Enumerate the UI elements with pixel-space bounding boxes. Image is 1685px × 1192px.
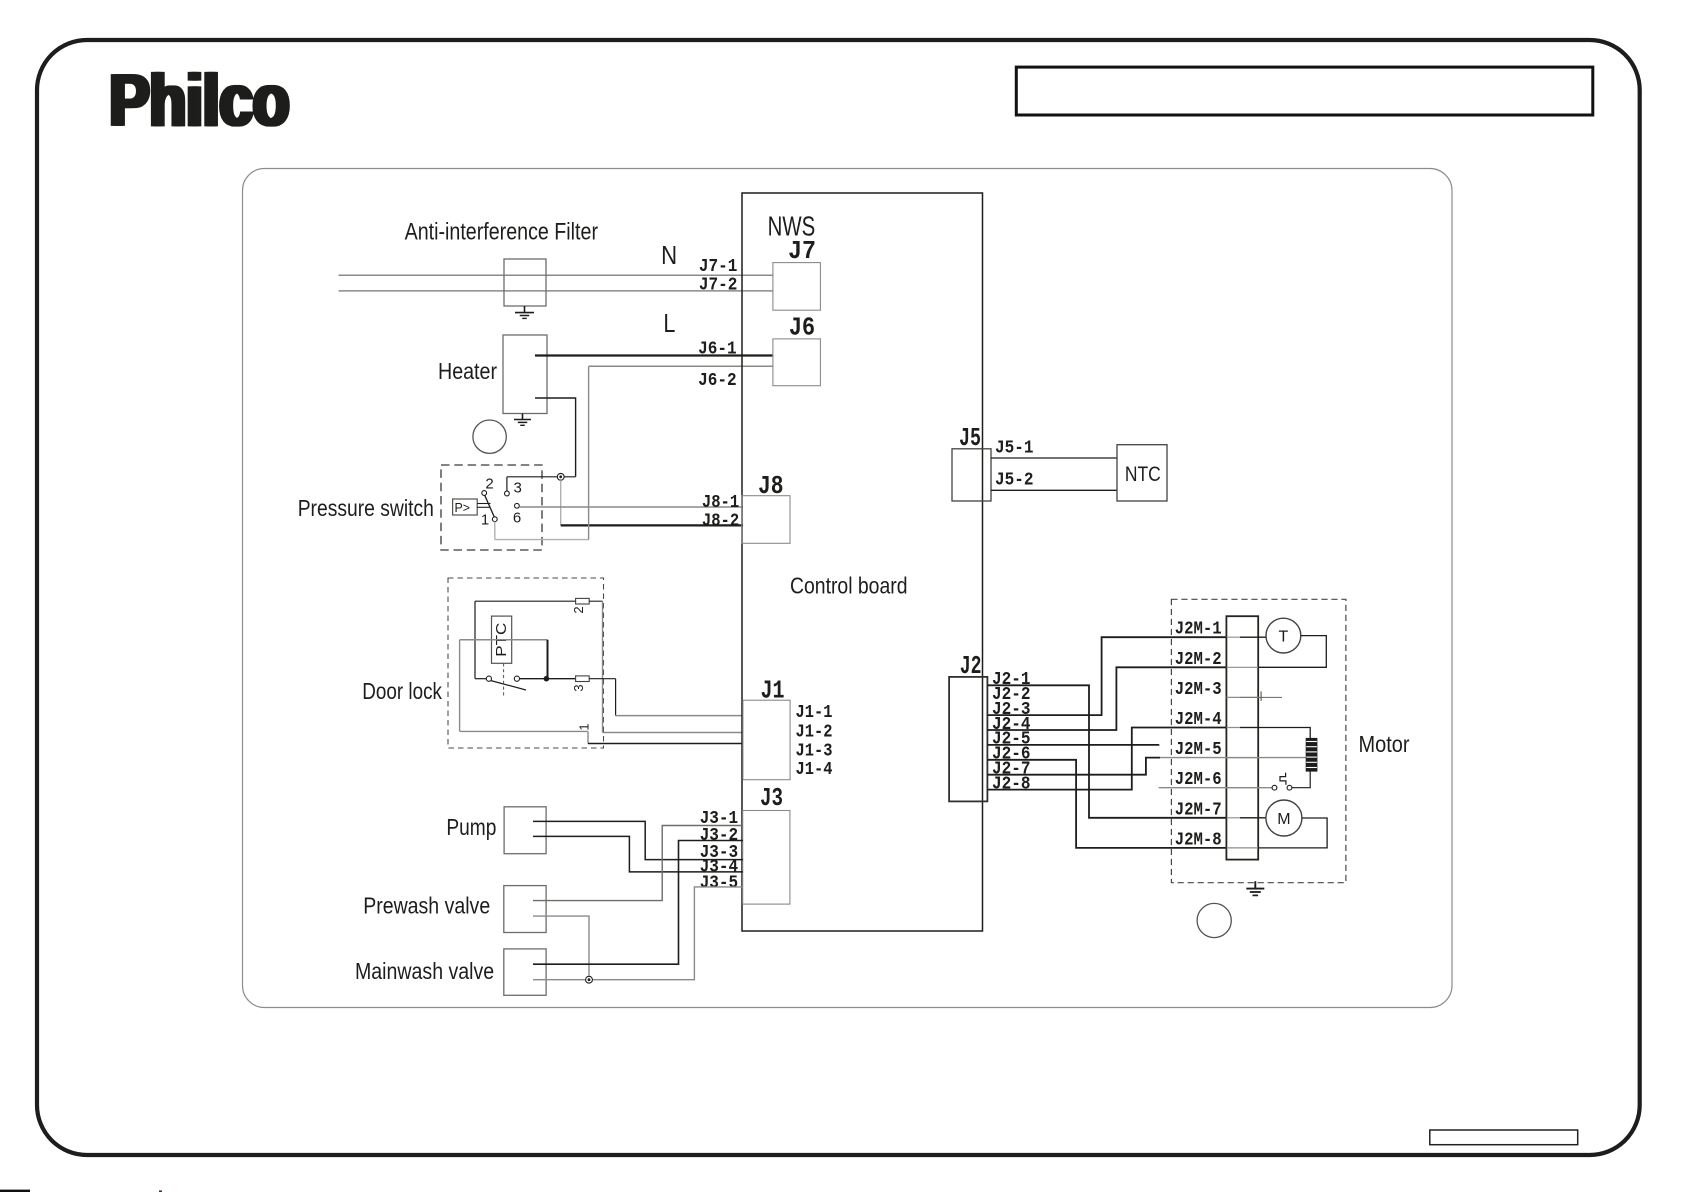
svg-text:2: 2 [571,606,586,613]
svg-text:Pressure switch: Pressure switch [298,495,434,521]
connector J5 box [952,449,991,501]
wire J2-3 to J2M-1 [987,637,1226,715]
svg-text:J1-4: J1-4 [796,760,833,780]
wire L mains to J7-2 [339,290,773,292]
connector J8 box [742,496,790,544]
svg-text:J7-2: J7-2 [699,276,738,296]
wire doorlock top [475,600,576,602]
svg-text:J1-1: J1-1 [796,703,833,723]
wire commutator to switch [1292,771,1310,788]
svg-text:N: N [661,240,677,270]
svg-text:J8: J8 [758,471,784,501]
wire J1-2 [603,732,744,734]
heater box [503,335,547,414]
svg-text:2: 2 [485,476,493,493]
NTC box [1117,445,1167,501]
door lock dashed box [448,578,604,748]
svg-text:Pump: Pump [446,814,496,840]
mainwash valve box [504,949,546,995]
anti-interference filter box [504,259,546,306]
contact 6 common [515,503,520,508]
wire J2-6 to J2M-8 [987,760,1226,848]
wire contact1 run [495,539,589,541]
svg-text:Heater: Heater [438,358,497,384]
centrifugal switch lever [1280,773,1286,785]
motor winding M [1266,800,1302,836]
prewash valve box [504,886,546,933]
wire prewash to J3-1 [533,826,743,901]
pin stub J2M-1 to tacho [1240,636,1266,638]
centrifugal switch contact b [1287,785,1292,790]
connector J6 box [773,339,821,386]
wire junction down to J8-2 run [560,480,562,525]
pin line J2M-3 through bar [1226,696,1258,698]
pressure switch dashed box [441,465,542,550]
svg-text:J7: J7 [788,236,816,266]
pin line J2M-5 through bar [1226,757,1258,759]
wire J2-8 to J2M-4 [987,728,1226,790]
wire terminal3 stub [589,678,615,680]
title block rectangle (top right, empty) [1016,67,1593,115]
wire doorlock drop to J1-1 [615,679,617,716]
pin stub J2M-3 [1240,696,1282,698]
connector J7 box [773,263,821,311]
pump box [504,807,546,854]
svg-text:L: L [663,308,675,338]
wire J2-1 to J2M-7 [987,685,1226,818]
svg-text:3: 3 [571,684,586,691]
svg-text:Anti-interference Filter: Anti-interference Filter [405,219,598,246]
ground (filter) [524,306,526,313]
svg-text:3: 3 [514,480,522,497]
svg-text:NTC: NTC [1125,462,1161,486]
pin line J2M-7 through bar [1226,817,1258,819]
contact 1 [492,517,497,522]
ground (motor) [1254,881,1256,888]
motor dashed box [1171,599,1346,882]
wire riser to J6-2 [588,366,590,539]
wire heater to J6-1 [535,354,773,356]
junction node (heater/pressure) [557,473,564,480]
wire N mains to J7-1 [339,274,773,276]
svg-text:J5: J5 [959,423,981,453]
wire pump to J3-4 [533,836,743,872]
PTC box [492,616,512,663]
control board box [742,193,983,931]
svg-text:Philco: Philco [112,61,292,142]
svg-text:J7-1: J7-1 [699,257,738,277]
svg-text:M: M [1277,811,1290,828]
tacho generator T [1266,618,1301,653]
connector J3 box [743,811,790,905]
junction node (valves) [586,976,593,983]
svg-text:P>: P> [455,501,471,515]
wire pump to J3-3 [533,821,743,859]
inner diagram rounded border [243,169,1453,1008]
svg-text:J1-2: J1-2 [796,723,833,743]
door switch contact left [486,676,491,681]
door switch contact right [514,676,519,681]
pin stub J2M-7 to motor [1240,817,1266,819]
wire J2M-5 gray run [1160,757,1306,759]
wire contact3 to junction [507,476,576,478]
wire prewash drop [533,916,589,980]
svg-text:Door lock: Door lock [362,678,442,704]
svg-text:J6: J6 [789,312,816,342]
tick J2M-3 [1260,691,1262,700]
svg-text:6: 6 [513,510,521,527]
actuator links [477,503,490,505]
svg-text:Control board: Control board [790,573,908,599]
wire mainwash to J3-2 [533,841,743,965]
wire PTC right drop [547,640,549,679]
svg-text:J8-1: J8-1 [702,493,739,513]
switch lever (pressure) [485,496,495,518]
junction dot (door lock) [544,676,550,682]
connector J1 box [743,700,790,780]
svg-text:J8-2: J8-2 [702,511,739,531]
svg-text:1: 1 [577,723,592,730]
wire corner to J1-3 [587,731,589,743]
wire contacts to terminal3 [520,678,576,680]
svg-text:J3: J3 [760,783,783,813]
centrifugal switch contact a [1272,785,1277,790]
pin line J2M-2 through bar [1226,666,1258,668]
commutator / brush block [1306,738,1317,771]
wire mainwash to J3-5 [533,887,743,980]
svg-text:J6-2: J6-2 [698,371,737,391]
connector J2 box [949,677,987,802]
svg-text:J2M-3: J2M-3 [1175,680,1222,700]
terminal 3 (door lock) [576,676,590,682]
wire J1-1 [616,715,743,717]
wire J5-2 [991,489,1117,491]
boiling circle (heater) [473,420,506,453]
pin line J2M-8 through bar [1226,847,1258,849]
svg-text:J2-8: J2-8 [992,774,1031,794]
motor connector bar [1226,616,1258,859]
svg-text:Mainwash valve: Mainwash valve [355,958,494,984]
pin line J2M-1 through bar [1226,636,1258,638]
PTC coupling dashed [503,663,505,697]
wire doorlock jog to contact [475,678,486,680]
terminal 2 (door lock) [576,598,590,604]
wire J6-2 [589,365,773,367]
svg-text:J5-2: J5-2 [995,471,1034,491]
wire J8-2 [561,524,743,526]
wire J2M-6 gray run [1159,787,1275,789]
svg-text:Prewash valve: Prewash valve [363,893,490,919]
wire J8-1 [519,506,743,508]
svg-text:1: 1 [481,512,489,529]
tacho return to J2M-2 [1258,636,1326,668]
wire through PTC [460,639,548,641]
svg-text:J2: J2 [960,651,982,681]
pin line J2M-6 through bar [1226,787,1258,789]
svg-text:J1-3: J1-3 [796,742,833,762]
wire J2-4 to J2M-2 [987,667,1226,730]
wire contact3 riser [506,477,508,491]
P> sensor box [453,499,478,515]
svg-text:J3-5: J3-5 [700,874,739,894]
wire J2M-4 to commutator [1240,728,1310,739]
wire contact1 drop [494,522,496,540]
svg-text:J1: J1 [761,675,785,705]
wire J1-3 [588,743,743,745]
wire J2-5 stub [987,744,1159,746]
wire terminal2 stub [589,600,602,602]
svg-text:T: T [1279,629,1289,646]
door switch lever [491,681,527,691]
pin line J2M-4 through bar [1226,727,1258,729]
bottom-left scan mark [0,1190,30,1192]
svg-text:Motor: Motor [1359,731,1410,757]
circle below motor [1197,903,1231,937]
wire J2-7 to J2M-5 [987,758,1160,775]
wire doorlock left vertical [474,601,476,679]
contact 3 [505,491,510,496]
wire heater tail to pressure-switch junction [535,398,576,477]
svg-text:J6-1: J6-1 [698,340,737,360]
wire doorlock bottom run [460,730,588,732]
ground (heater) [522,414,524,420]
bottom-right small rectangle (empty) [1430,1130,1578,1145]
svg-text:J5-1: J5-1 [995,439,1034,459]
motor return to J2M-8 [1258,818,1327,848]
wire J5-1 [991,457,1117,459]
Philco logo [107,61,291,142]
contact 2 [482,491,487,496]
wire doorlock right riser [602,601,604,732]
wire doorlock left drop [459,640,461,732]
